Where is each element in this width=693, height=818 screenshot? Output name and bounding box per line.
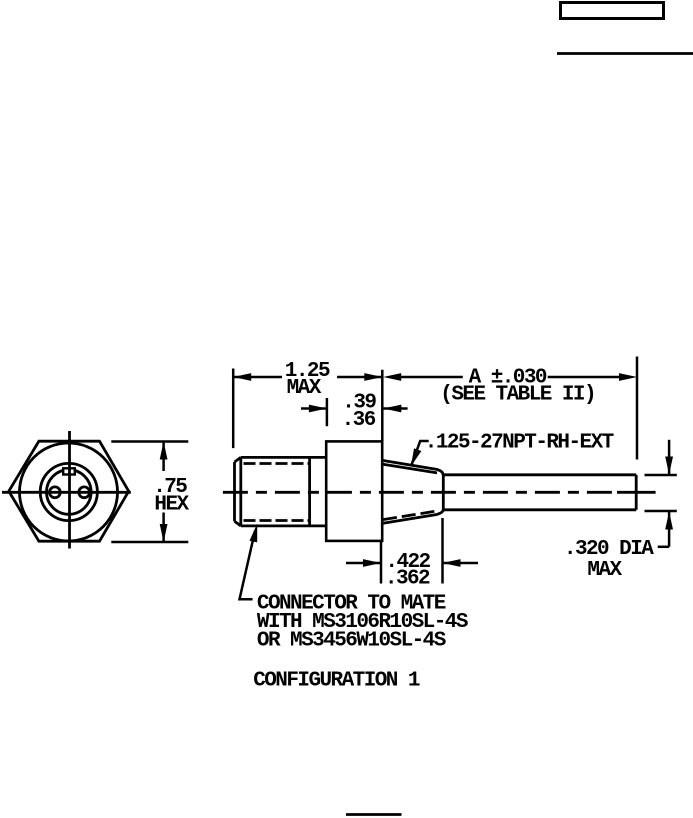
svg-text:.362: .362 (385, 568, 430, 591)
svg-text:.36: .36 (342, 409, 376, 432)
svg-text:OR MS3456W10SL-4S: OR MS3456W10SL-4S (257, 630, 446, 653)
svg-text:.320 DIA: .320 DIA (564, 538, 654, 561)
svg-text:MAX: MAX (587, 559, 622, 582)
svg-text:CONFIGURATION 1: CONFIGURATION 1 (253, 669, 420, 692)
svg-text:MAX: MAX (287, 377, 322, 400)
svg-text:(SEE TABLE II): (SEE TABLE II) (440, 383, 595, 406)
svg-text:HEX: HEX (154, 493, 189, 516)
svg-text:.125-27NPT-RH-EXT: .125-27NPT-RH-EXT (425, 432, 614, 455)
